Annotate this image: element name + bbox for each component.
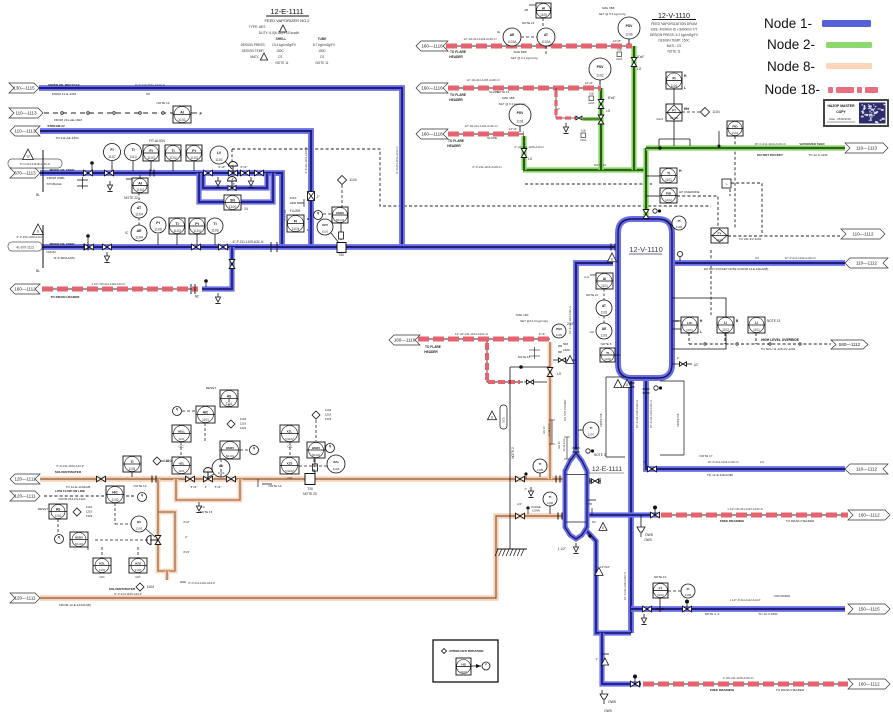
svg-text:LO: LO (606, 109, 611, 113)
svg-text:LIC: LIC (687, 321, 693, 325)
svg-text:VAPORIZED FEED: VAPORIZED FEED (799, 142, 824, 146)
svg-text:8"-O-213-2151B-A13C-N: 8"-O-213-2151B-A13C-N (20, 162, 50, 166)
svg-text:DESIGN TEMP: 150C: DESIGN TEMP: 150C (658, 39, 690, 43)
svg-text:TUBE: TUBE (318, 37, 328, 41)
svg-text:1 1/2"-OD-211-1118-A13-N: 1 1/2"-OD-211-1118-A13-N (91, 282, 124, 286)
svg-text:NOTE 10: NOTE 10 (594, 163, 607, 167)
svg-text:HDR: HDR (290, 201, 297, 205)
svg-text:6"-P-213-1105-A13-P: 6"-P-213-1105-A13-P (114, 592, 142, 596)
svg-text:SIZE 1B3: SIZE 1B3 (516, 313, 529, 317)
svg-text:MIXED OIL FEED: MIXED OIL FEED (50, 168, 76, 172)
svg-text:DESIGN TEMP:: DESIGN TEMP: (242, 49, 265, 53)
svg-text:NC: NC (195, 295, 200, 299)
svg-text:A-H: A-H (584, 275, 589, 279)
svg-text:DESIGN PRESS:: DESIGN PRESS: (241, 43, 266, 47)
svg-text:DUTY: 6.0(6.35) x 10 kcal/h: DUTY: 6.0(6.35) x 10 kcal/h (259, 31, 300, 35)
svg-text:N1101: N1101 (336, 218, 345, 222)
svg-text:2": 2" (185, 535, 188, 539)
svg-text:FI: FI (110, 148, 113, 152)
svg-text:6"x4": 6"x4" (241, 165, 248, 169)
svg-text:120—1111: 120—1111 (14, 596, 36, 601)
svg-text:6: 6 (611, 257, 613, 261)
svg-text:NOTE 11: NOTE 11 (315, 61, 328, 65)
svg-text:1102: 1102 (665, 198, 672, 202)
svg-text:6: 6 (491, 415, 493, 419)
svg-text:L: L (684, 86, 686, 90)
svg-text:160—1112: 160—1112 (858, 682, 880, 687)
svg-text:1105: 1105 (537, 468, 544, 472)
svg-text:6"-P-211-1109-A13-P: 6"-P-211-1109-A13-P (56, 464, 83, 468)
svg-text:1105: 1105 (540, 13, 547, 17)
svg-text:1101: 1101 (322, 230, 329, 234)
svg-text:TO 12-V-1561: TO 12-V-1561 (758, 612, 778, 616)
svg-text:RESET: RESET (38, 507, 48, 511)
svg-text:TO FLARE: TO FLARE (425, 345, 441, 349)
svg-text:1104: 1104 (349, 178, 356, 182)
svg-text:SN: SN (230, 198, 235, 202)
svg-text:BL: BL (36, 193, 40, 197)
svg-text:12-V-1110: 12-V-1110 (629, 245, 663, 254)
svg-text:TI: TI (549, 495, 552, 499)
svg-text:PT: PT (672, 108, 676, 112)
svg-text:RESET: RESET (206, 386, 216, 390)
svg-text:1106: 1106 (625, 32, 632, 36)
svg-text:1": 1" (595, 657, 598, 661)
svg-text:6"-O-213-1151-A13C-N: 6"-O-213-1151-A13C-N (135, 83, 165, 87)
svg-text:6"-P-211-1115-A13C-N: 6"-P-211-1115-A13C-N (472, 165, 501, 169)
svg-text:FEED VAPORIZATION DRUM: FEED VAPORIZATION DRUM (651, 22, 697, 26)
svg-text:TO FLARE: TO FLARE (450, 93, 466, 97)
svg-text:8.7 kg/cm2g/FV: 8.7 kg/cm2g/FV (313, 43, 336, 47)
svg-text:BL: BL (36, 269, 40, 273)
svg-text:2": 2" (557, 107, 560, 111)
svg-text:14"X12": 14"X12" (600, 565, 610, 569)
svg-text:CA: CA (760, 460, 764, 464)
svg-text:AE: AE (137, 229, 143, 233)
svg-text:FT: FT (659, 586, 663, 590)
svg-text:XZV: XZV (322, 223, 329, 227)
svg-text:PSV: PSV (556, 327, 562, 331)
svg-text:1": 1" (677, 356, 680, 360)
svg-text:NOTE 21: NOTE 21 (586, 293, 599, 297)
svg-text:CS: CS (278, 55, 282, 59)
svg-text:PI: PI (156, 221, 159, 225)
svg-text:1109: 1109 (211, 229, 219, 233)
svg-text:1": 1" (524, 487, 527, 491)
svg-text:INST: INST (290, 196, 297, 200)
svg-text:OWS: OWS (644, 538, 652, 542)
svg-text:FI: FI (687, 587, 690, 591)
svg-text:N1102: N1102 (312, 453, 321, 457)
svg-text:N1101: N1101 (226, 454, 235, 458)
svg-text:FI: FI (149, 149, 152, 153)
svg-text:1102: 1102 (55, 514, 62, 518)
svg-text:OWS: OWS (645, 533, 654, 537)
svg-text:160—1116: 160—1116 (421, 132, 443, 137)
svg-text:1101: 1101 (178, 118, 186, 122)
svg-text:NOTE 20: NOTE 20 (303, 492, 317, 496)
svg-text:AI: AI (603, 277, 606, 281)
svg-text:HZL: HZL (179, 461, 185, 465)
svg-text:150C: 150C (318, 49, 326, 53)
svg-text:1101: 1101 (671, 84, 678, 88)
svg-text:O/C: O/C (287, 476, 293, 480)
svg-text:N1102: N1102 (285, 437, 294, 441)
svg-text:OWS: OWS (608, 700, 617, 704)
svg-text:NOTE 14: NOTE 14 (134, 484, 147, 488)
svg-text:1103A: 1103A (542, 40, 552, 44)
svg-text:PID: PID (732, 124, 738, 128)
svg-text:O/C: O/C (178, 445, 184, 449)
svg-text:DO NOT POCKET: DO NOT POCKET (563, 399, 567, 421)
svg-text:1101: 1101 (215, 158, 223, 162)
svg-text:HP OVERRIDE: HP OVERRIDE (679, 190, 700, 194)
svg-text:AI: AI (542, 6, 545, 10)
svg-text:HIGH LEVEL OVERRIDE: HIGH LEVEL OVERRIDE (761, 338, 800, 342)
svg-text:1323: 1323 (240, 426, 247, 430)
svg-text:N1102: N1102 (75, 542, 83, 546)
svg-text:CS: CS (320, 55, 324, 59)
svg-text:T30: T30 (338, 253, 344, 257)
svg-text:NOTE 19: NOTE 19 (654, 575, 667, 579)
svg-text:FLUSH: FLUSH (290, 209, 301, 213)
svg-text:160—1116: 160—1116 (421, 44, 443, 49)
svg-text:A1B: A1B (589, 93, 594, 96)
svg-text:TI: TI (590, 426, 593, 430)
svg-text:COPY: COPY (836, 110, 846, 114)
svg-text:TO 12-E-1111A/(B): TO 12-E-1111A/(B) (707, 473, 733, 477)
svg-text:1102: 1102 (657, 593, 664, 597)
svg-text:CA: CA (755, 256, 759, 260)
svg-text:110—1112: 110—1112 (856, 467, 878, 472)
svg-text:6: 6 (37, 230, 39, 234)
svg-text:>: > (726, 183, 728, 187)
svg-text:1100: 1100 (229, 205, 237, 209)
svg-text:2"x6": 2"x6" (539, 332, 546, 336)
svg-text:130—1115: 130—1115 (13, 86, 35, 91)
svg-text:1103A: 1103A (508, 40, 518, 44)
svg-text:FROM 12-E-1346: FROM 12-E-1346 (52, 92, 77, 96)
svg-text:1101: 1101 (732, 131, 739, 135)
svg-text:1101: 1101 (716, 238, 723, 242)
svg-text:1103: 1103 (190, 156, 198, 160)
svg-text:16"-P-211-1105-A13C-N: 16"-P-211-1105-A13C-N (623, 572, 627, 600)
svg-text:NOTE 22: NOTE 22 (124, 196, 138, 200)
svg-text:VB: VB (588, 502, 592, 506)
svg-text:LI: LI (724, 321, 727, 325)
svg-text:12"-AF-211-1105-A13C-N: 12"-AF-211-1105-A13C-N (467, 78, 500, 82)
svg-text:FROM 12-E-1234A/(B): FROM 12-E-1234A/(B) (59, 603, 90, 607)
svg-text:PI: PI (195, 222, 198, 226)
svg-text:8"-O-213-1151-A13C-N: 8"-O-213-1151-A13C-N (395, 146, 399, 173)
svg-text:13.4 kg/cm2g/FV: 13.4 kg/cm2g/FV (272, 43, 297, 47)
svg-text:N1102: N1102 (285, 469, 294, 473)
svg-text:L: L (307, 228, 309, 232)
svg-text:FROM 211-AE-1303: FROM 211-AE-1303 (54, 118, 82, 122)
svg-text:TI: TI (539, 462, 542, 466)
svg-text:HSLL: HSLL (178, 429, 186, 433)
svg-text:DO NOT POCKET: DO NOT POCKET (757, 153, 783, 157)
svg-text:NOTE 15: NOTE 15 (200, 510, 213, 514)
svg-text:1102: 1102 (169, 156, 177, 160)
svg-text:12-44-1110: 12-44-1110 (562, 438, 566, 451)
svg-text:1323: 1323 (86, 514, 93, 518)
svg-text:LO: LO (528, 157, 533, 161)
svg-text:4"x3": 4"x3" (183, 550, 190, 554)
svg-text:XZo: XZo (333, 460, 339, 464)
svg-text:1101: 1101 (202, 418, 209, 422)
svg-text:PI: PI (192, 149, 195, 153)
svg-text:NOTE 5/8: NOTE 5/8 (676, 413, 680, 426)
svg-text:1105: 1105 (676, 225, 683, 229)
svg-text:XSOV: XSOV (336, 211, 344, 215)
svg-text:1102: 1102 (99, 568, 106, 572)
svg-text:LO: LO (557, 372, 562, 376)
svg-text:160—1112: 160—1112 (858, 513, 880, 518)
svg-text:SHELL: SHELL (276, 37, 287, 41)
svg-text:MATL: CS: MATL: CS (667, 44, 681, 48)
svg-text:HEADER: HEADER (447, 144, 461, 148)
svg-text:PSV: PSV (626, 24, 634, 28)
svg-text:160—1116: 160—1116 (394, 338, 416, 343)
svg-text:HEADER: HEADER (449, 55, 463, 59)
svg-text:12"-AF-211-1103-A13C-N: 12"-AF-211-1103-A13C-N (464, 37, 497, 41)
svg-text:12"x8": 12"x8" (613, 39, 622, 43)
svg-text:AI: AI (138, 181, 142, 185)
svg-text:1102: 1102 (596, 73, 603, 77)
svg-text:VAPORIZER: VAPORIZER (774, 594, 791, 598)
svg-text:50#: 50# (563, 342, 568, 346)
svg-text:8: 8 (626, 383, 628, 387)
svg-text:1104: 1104 (712, 110, 719, 114)
svg-text:CONN: CONN (532, 509, 540, 513)
svg-text:8": 8" (644, 460, 647, 464)
svg-text:1107: 1107 (588, 433, 595, 437)
svg-text:1104: 1104 (136, 188, 144, 192)
svg-text:1 1/2": 1 1/2" (558, 547, 566, 551)
svg-text:2oo3: 2oo3 (656, 117, 663, 121)
svg-text:NOTE 5/8: NOTE 5/8 (599, 413, 603, 426)
svg-text:A1B: A1B (581, 130, 586, 133)
svg-text:LO: LO (637, 67, 642, 71)
svg-text:1102: 1102 (333, 467, 340, 471)
svg-text:AT: AT (137, 206, 142, 210)
svg-text:Node 8-: Node 8- (767, 59, 815, 74)
svg-text:LI: LI (755, 321, 758, 325)
svg-text:PID: PID (666, 191, 672, 195)
svg-text:SIZE 8B8: SIZE 8B8 (602, 6, 615, 10)
svg-text:TI: TI (171, 149, 174, 153)
svg-text:12-E-1111: 12-E-1111 (270, 7, 303, 16)
svg-text:NOTE 11: NOTE 11 (667, 50, 680, 54)
svg-text:1103: 1103 (173, 229, 181, 233)
svg-text:1105: 1105 (556, 333, 563, 337)
svg-text:41-670-1113: 41-670-1113 (16, 246, 34, 250)
svg-text:110—1112: 110—1112 (852, 232, 874, 237)
svg-text:SET @ 8.3 kg/cm2g: SET @ 8.3 kg/cm2g (599, 12, 626, 16)
svg-text:1102: 1102 (685, 593, 692, 597)
svg-text:160—1112: 160—1112 (14, 287, 36, 292)
svg-text:TI: TI (667, 171, 670, 175)
svg-text:O/C: O/C (287, 445, 293, 449)
svg-text:TO FLARE: TO FLARE (450, 50, 466, 54)
svg-text:1101: 1101 (516, 119, 523, 123)
svg-text:1323: 1323 (325, 417, 332, 421)
svg-text:16"-P-211-1104-A13C-N: 16"-P-211-1104-A13C-N (707, 460, 738, 464)
svg-text:1110: 1110 (129, 155, 136, 159)
svg-text:A10A: A10A (616, 58, 622, 61)
svg-text:HEADER: HEADER (449, 98, 463, 102)
svg-text:MIXED OIL FEED: MIXED OIL FEED (50, 242, 76, 246)
svg-text:12-V-1110: 12-V-1110 (658, 11, 690, 20)
svg-text:8"x6": 8"x6" (608, 96, 615, 100)
svg-text:6"x4": 6"x4" (219, 165, 226, 169)
svg-text:LOW FLOW ON LINE: LOW FLOW ON LINE (55, 489, 85, 493)
svg-text:5"x4": 5"x4" (191, 485, 198, 489)
svg-text:HK 10: HK 10 (542, 426, 546, 434)
svg-text:SOLVENT/WATER: SOLVENT/WATER (55, 470, 82, 474)
svg-text:4": 4" (205, 485, 208, 489)
svg-text:150#: 150# (563, 348, 570, 352)
svg-text:1104: 1104 (292, 227, 300, 231)
svg-text:TO 211-AE-1303: TO 211-AE-1303 (55, 136, 78, 140)
svg-text:NOTE 21: NOTE 21 (522, 21, 535, 25)
svg-text:1101: 1101 (665, 178, 672, 182)
svg-text:150—1115: 150—1115 (858, 607, 880, 612)
svg-text:FREE DRAINING: FREE DRAINING (710, 688, 735, 692)
svg-text:12"-AF-211-1104-A13C-N: 12"-AF-211-1104-A13C-N (455, 332, 488, 336)
svg-text:1104: 1104 (147, 585, 154, 589)
svg-text:1104: 1104 (193, 229, 201, 233)
svg-text:TO DRAIN HEADER: TO DRAIN HEADER (51, 295, 81, 299)
svg-text:HAZOP MASTER: HAZOP MASTER (827, 104, 855, 108)
svg-text:Node 1-: Node 1- (764, 16, 812, 31)
svg-text:1101: 1101 (178, 437, 185, 441)
svg-text:1101: 1101 (601, 284, 608, 288)
svg-text:670—1113: 670—1113 (14, 171, 36, 176)
svg-text:4"x2": 4"x2" (183, 520, 190, 524)
svg-text:NOTE 17: NOTE 17 (700, 454, 713, 458)
svg-text:NOTE 3: NOTE 3 (594, 453, 606, 457)
svg-text:TI: TI (131, 460, 134, 464)
svg-text:IE: IE (497, 30, 500, 34)
svg-text:1103: 1103 (147, 156, 155, 160)
svg-text:1104: 1104 (240, 417, 247, 421)
svg-text:HSOV: HSOV (226, 446, 234, 450)
svg-text:3"-P-211-1151-A13C-N: 3"-P-211-1151-A13C-N (304, 147, 308, 174)
svg-text:1106: 1106 (154, 228, 162, 232)
svg-text:1104: 1104 (135, 236, 143, 240)
svg-text:1101: 1101 (601, 334, 608, 338)
svg-text:HSOV: HSOV (75, 535, 83, 539)
svg-text:5"x4": 5"x4" (215, 485, 222, 489)
svg-text:MIXED OIL RECYCLE: MIXED OIL RECYCLE (48, 83, 79, 87)
svg-text:1101: 1101 (686, 328, 693, 332)
svg-text:PI: PI (672, 76, 675, 80)
svg-text:FROM OSBL: FROM OSBL (47, 176, 66, 180)
svg-text:OWS: OWS (604, 709, 612, 713)
svg-text:HS: HS (56, 507, 60, 511)
svg-text:NC: NC (592, 520, 596, 524)
svg-text:16"-P-211-1105-A13C-N: 16"-P-211-1105-A13C-N (635, 400, 639, 428)
svg-text:6": 6" (233, 182, 236, 186)
svg-text:16"-O-211-1102-A13C-N: 16"-O-211-1102-A13C-N (754, 142, 785, 146)
svg-text:110—1112: 110—1112 (856, 261, 878, 266)
svg-text:580—1112: 580—1112 (839, 342, 861, 347)
svg-text:TI: TI (213, 222, 216, 226)
svg-text:1 1/2"-P-211-1112-A13-P: 1 1/2"-P-211-1112-A13-P (730, 598, 761, 602)
svg-text:12"x6": 12"x6" (509, 127, 518, 131)
svg-text:UC: UC (694, 363, 699, 367)
svg-text:Date : 25/06/2019: Date : 25/06/2019 (829, 117, 851, 121)
svg-text:HZL: HZL (99, 561, 105, 565)
svg-text:XZL: XZL (287, 429, 293, 433)
svg-text:AE: AE (510, 33, 514, 37)
svg-text:160—1116: 160—1116 (421, 86, 443, 91)
svg-text:1104: 1104 (129, 467, 136, 471)
svg-text:A1B: A1B (617, 49, 622, 52)
svg-text:SLOPE: SLOPE (489, 90, 499, 94)
svg-text:XZS: XZS (287, 461, 293, 465)
svg-text:HZS: HZS (135, 561, 141, 565)
svg-text:AB: AB (524, 8, 528, 12)
svg-text:PSV: PSV (597, 65, 605, 69)
svg-text:FIT-ALIGN: FIT-ALIGN (149, 139, 165, 143)
svg-text:FROM 212-FS-1101: FROM 212-FS-1101 (59, 497, 86, 501)
svg-text:PSV: PSV (517, 111, 525, 115)
svg-text:TO DRAIN HEADER: TO DRAIN HEADER (776, 688, 805, 692)
svg-text:1104: 1104 (135, 213, 143, 217)
svg-text:O/C: O/C (99, 575, 105, 579)
svg-text:1/2": 1/2" (517, 502, 522, 506)
svg-text:O/C: O/C (135, 575, 141, 579)
svg-text:LV: LV (217, 151, 222, 155)
svg-text:NOTE 8: NOTE 8 (601, 342, 612, 346)
svg-text:6"-P-211-1109-A3C-N: 6"-P-211-1109-A3C-N (233, 240, 264, 244)
svg-text:1216: 1216 (325, 413, 332, 417)
svg-text:NOTE 4, 6: NOTE 4, 6 (705, 612, 720, 616)
svg-text:12"x6": 12"x6" (585, 81, 594, 85)
svg-text:2"-AF-211-1106-A13-N: 2"-AF-211-1106-A13-N (514, 145, 543, 149)
svg-text:STREAM #2: STREAM #2 (47, 124, 65, 128)
svg-text:-INTERLOCK INITIATION: -INTERLOCK INITIATION (449, 649, 484, 653)
svg-text:PURGE: PURGE (531, 505, 540, 509)
svg-text:NOTE 13: NOTE 13 (767, 319, 781, 323)
svg-text:SOLVENT/WATER: SOLVENT/WATER (109, 587, 136, 591)
svg-text:TI: TI (606, 351, 609, 355)
svg-text:TYPE: AES: TYPE: AES (249, 25, 267, 29)
svg-text:1102: 1102 (135, 568, 142, 572)
svg-text:1108: 1108 (604, 357, 611, 361)
svg-text:1102: 1102 (136, 527, 143, 531)
svg-text:TI: TI (175, 222, 178, 226)
svg-text:HH: HH (684, 107, 689, 111)
svg-text:STORAGE: STORAGE (46, 182, 61, 186)
svg-text:12-E-1111: 12-E-1111 (592, 466, 622, 473)
svg-text:12"-AF-211-1102-A13C-N: 12"-AF-211-1102-A13C-N (465, 124, 498, 128)
svg-text:120—1111: 120—1111 (14, 477, 36, 482)
svg-text:1216: 1216 (240, 422, 247, 426)
svg-text:8"x6": 8"x6" (637, 55, 644, 59)
svg-text:3100: 3100 (460, 670, 467, 674)
svg-text:NOTE 12: NOTE 12 (157, 101, 170, 105)
svg-text:3175: 3175 (502, 417, 506, 423)
svg-text:24: 24 (244, 207, 248, 211)
svg-text:12: 12 (26, 155, 30, 159)
svg-text:HIC: HIC (203, 410, 209, 414)
svg-text:SIZE BB8: SIZE BB8 (513, 50, 527, 54)
svg-text:16"-P-211-1113-A13C-N: 16"-P-211-1113-A13C-N (568, 306, 572, 334)
